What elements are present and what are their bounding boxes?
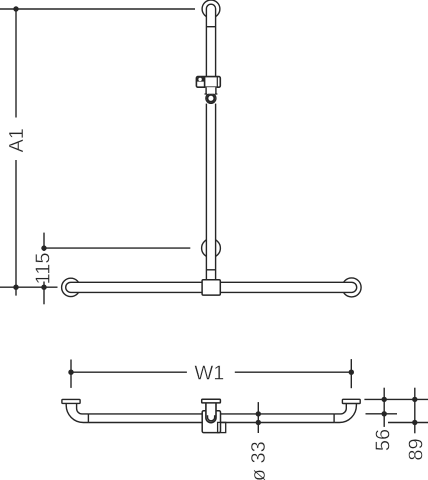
dimension line 115 lower segment <box>43 282 45 305</box>
svg-text:ø 33: ø 33 <box>248 441 270 480</box>
rail joint line above junction <box>206 269 215 271</box>
svg-text:115: 115 <box>33 253 55 285</box>
wall reference line <box>364 398 428 400</box>
left wall flange (plan) <box>62 399 80 403</box>
rosette top (vertical rail wall mount) <box>202 0 220 18</box>
dimension line A1 lower segment <box>15 160 17 296</box>
left bend joint line <box>87 414 89 423</box>
slider body <box>196 77 220 88</box>
W1 dimension line right segment <box>235 371 351 373</box>
right bend inner <box>334 404 346 414</box>
W1 dot left <box>68 370 73 375</box>
svg-text:W1: W1 <box>194 362 224 384</box>
dot 56 wall <box>382 397 387 402</box>
junction block (front view) <box>202 280 220 295</box>
W1 dot right <box>349 370 354 375</box>
rail joint line below top mount <box>206 26 215 28</box>
holder ring outer <box>206 93 216 103</box>
tick diameter 33 <box>257 402 259 433</box>
holder arm left side <box>205 87 207 94</box>
slider divider left <box>204 77 206 87</box>
svg-text:A1: A1 <box>6 128 28 152</box>
node A1 top dot <box>13 6 18 11</box>
dimension line 115 upper segment <box>43 233 45 251</box>
right bend outer <box>334 404 356 423</box>
holder arm <box>205 87 216 94</box>
dimension line 56 <box>366 413 398 415</box>
node 115 top dot <box>41 245 46 250</box>
tick 56 <box>383 388 385 427</box>
dot d33 bottom <box>256 420 261 425</box>
dot 89 tube <box>412 420 417 425</box>
svg-text:56: 56 <box>373 429 395 451</box>
tick 89 <box>414 388 416 434</box>
vertical rail tube (front view) <box>206 4 215 284</box>
extension line lower rosette <box>44 247 190 249</box>
slider button hole <box>198 78 201 81</box>
dimension line 89 <box>388 422 428 424</box>
extension line bar centre <box>0 286 58 288</box>
right wall flange (plan) <box>342 399 360 403</box>
holder shoulder left <box>205 93 208 95</box>
rail tube end inner wall <box>208 415 215 421</box>
junction collar right (plan) <box>218 422 226 432</box>
svg-text:89: 89 <box>405 438 427 460</box>
extension line top (mount height) <box>0 8 195 10</box>
W1 tick left <box>70 360 72 388</box>
holder ring inner <box>207 95 214 102</box>
rosette lower (vertical rail wall mount) <box>202 239 221 258</box>
holder occluder <box>205 92 218 104</box>
dot d33 top <box>256 411 261 416</box>
junction block (plan) <box>202 411 220 433</box>
node A1 bottom dot <box>13 285 18 290</box>
W1 tick right <box>350 359 352 388</box>
rail tube end (plan) <box>206 403 216 423</box>
W1 dimension line left segment <box>71 371 187 373</box>
rosette right (grab bar wall mount) <box>342 278 361 297</box>
right bend joint line <box>333 414 335 423</box>
holder arm right side <box>215 87 217 94</box>
left bend outer <box>66 403 88 422</box>
left bend inner <box>77 403 89 414</box>
node 115 bottom dot <box>41 285 46 290</box>
holder shoulder right <box>215 93 218 95</box>
dimension line A1 upper segment <box>15 9 17 118</box>
rail top plate (plan) <box>202 399 221 403</box>
bar tube bottom line (plan) <box>88 422 334 424</box>
bar tube top line (plan) <box>88 413 334 415</box>
dot 89 wall <box>412 397 417 402</box>
grab bar tube (front view) <box>66 282 357 292</box>
dot 56 tube <box>382 411 387 416</box>
slider release button dark cell <box>197 77 205 82</box>
rosette left (grab bar wall mount) <box>62 278 80 296</box>
slider divider right <box>216 77 218 87</box>
